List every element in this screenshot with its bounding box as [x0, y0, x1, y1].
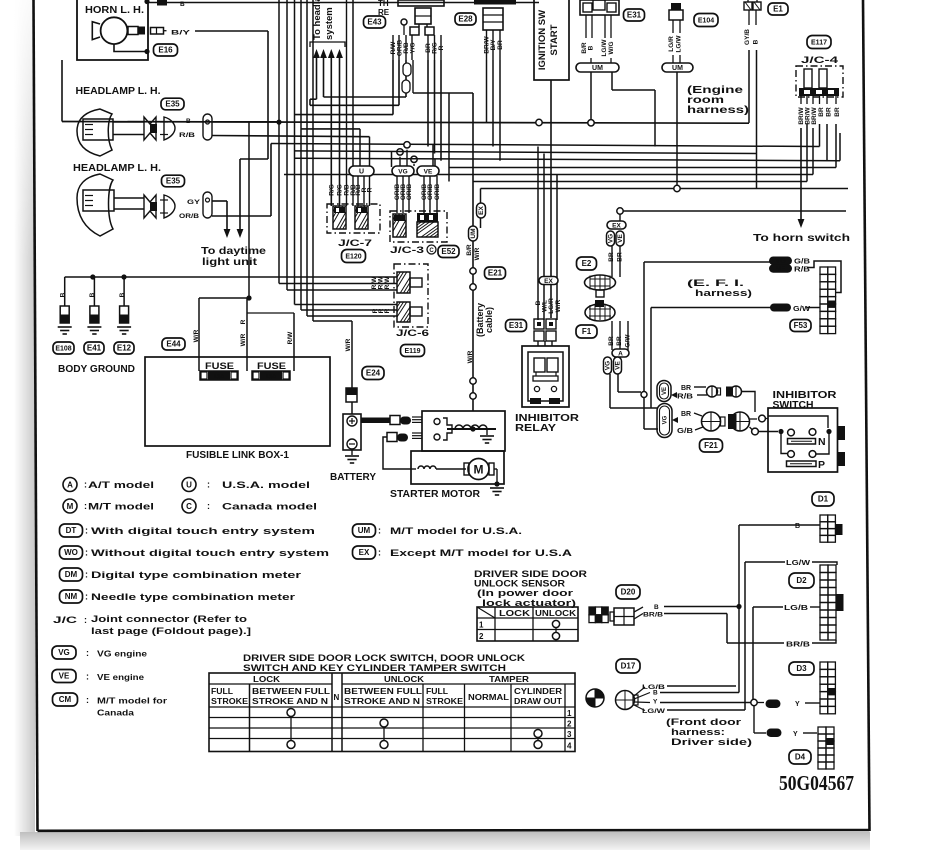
svg-text:A: A — [67, 480, 73, 489]
svg-text:P: P — [818, 459, 825, 471]
svg-text:M: M — [474, 463, 484, 477]
svg-text:W/G: W/G — [608, 42, 615, 55]
svg-text:VE: VE — [424, 168, 433, 175]
svg-text:N: N — [818, 436, 826, 448]
svg-text:B/Y: B/Y — [171, 30, 191, 37]
svg-text:BETWEEN FULL: BETWEEN FULL — [252, 687, 330, 696]
svg-text:VG engine: VG engine — [97, 649, 147, 659]
svg-text:U: U — [186, 480, 192, 489]
svg-text:HORN L. H.: HORN L. H. — [85, 5, 144, 16]
svg-text:B: B — [654, 604, 659, 611]
svg-text:OR/B: OR/B — [179, 213, 199, 220]
svg-text::: : — [85, 526, 88, 536]
svg-text:3: 3 — [567, 730, 572, 739]
svg-text:harness): harness) — [687, 105, 749, 116]
svg-text::: : — [85, 570, 88, 580]
svg-text:Joint connector (Refer to: Joint connector (Refer to — [91, 614, 247, 625]
svg-text::: : — [84, 501, 87, 511]
svg-text:M/T model for: M/T model for — [97, 696, 168, 706]
svg-text:BR/W: BR/W — [811, 106, 818, 124]
svg-text:R: R — [367, 187, 374, 192]
svg-text:LG/W: LG/W — [786, 560, 811, 567]
svg-text:15A: 15A — [265, 375, 277, 381]
svg-text:VG: VG — [663, 415, 669, 424]
svg-text:harness): harness) — [695, 288, 752, 299]
svg-text:DM: DM — [65, 570, 78, 579]
svg-text:2: 2 — [479, 632, 484, 641]
svg-text:GY: GY — [187, 199, 201, 206]
svg-text:WO: WO — [769, 731, 780, 737]
svg-text:A/T model: A/T model — [88, 480, 154, 491]
svg-text:START: START — [549, 24, 560, 55]
svg-text:B: B — [89, 292, 96, 297]
svg-text:FULL: FULL — [211, 687, 233, 696]
svg-text:VE: VE — [662, 387, 668, 395]
svg-text:E31: E31 — [627, 11, 642, 20]
svg-text:VE: VE — [617, 234, 624, 243]
svg-text:UM: UM — [672, 65, 683, 72]
svg-text:D20: D20 — [621, 588, 636, 597]
svg-text:W/R: W/R — [467, 350, 474, 363]
svg-text:E108: E108 — [55, 346, 71, 353]
svg-text:VG: VG — [775, 258, 786, 265]
svg-text:cable): cable) — [484, 307, 494, 333]
svg-text:M: M — [67, 502, 74, 511]
svg-text:GY/B: GY/B — [744, 29, 751, 45]
svg-text:BR: BR — [681, 411, 691, 418]
svg-text:system: system — [324, 7, 335, 40]
svg-text:UNLOCK: UNLOCK — [384, 674, 425, 684]
svg-text:Digital type combination meter: Digital type combination meter — [91, 570, 301, 581]
svg-text:STARTER MOTOR: STARTER MOTOR — [390, 489, 481, 500]
svg-text:VG: VG — [608, 234, 615, 243]
svg-text:E24: E24 — [366, 369, 381, 378]
svg-text:R/G: R/G — [337, 184, 344, 196]
svg-text:CM: CM — [775, 305, 786, 312]
svg-text:LG/B: LG/B — [784, 605, 808, 612]
svg-text:E28: E28 — [458, 15, 473, 24]
svg-text:G/B: G/B — [794, 259, 810, 266]
svg-text:U.S.A. model: U.S.A. model — [222, 480, 310, 491]
svg-text:RELAY: RELAY — [515, 423, 556, 434]
svg-text:F53: F53 — [794, 321, 808, 330]
svg-text:G/B: G/B — [677, 428, 693, 435]
svg-text:EX: EX — [478, 206, 485, 215]
svg-text:LG/R: LG/R — [668, 36, 675, 52]
svg-text::: : — [378, 526, 381, 536]
svg-text:E12: E12 — [117, 344, 132, 353]
svg-text:last page (Foldout page).]: last page (Foldout page).] — [91, 626, 251, 637]
svg-text:R/G: R/G — [329, 184, 336, 196]
svg-text:DT: DT — [769, 702, 777, 708]
svg-text:R: R — [438, 45, 445, 50]
svg-text:To horn switch: To horn switch — [753, 233, 850, 244]
svg-text::: : — [85, 548, 88, 558]
svg-text:U: U — [359, 168, 364, 175]
svg-text:N: N — [334, 693, 340, 702]
svg-text:E2: E2 — [582, 259, 592, 268]
svg-text:IGNITION SW: IGNITION SW — [537, 10, 548, 70]
svg-text:OR/B: OR/B — [406, 184, 413, 201]
svg-text:E41: E41 — [87, 344, 102, 353]
svg-text:B: B — [588, 45, 595, 50]
svg-text:With digital touch entry syste: With digital touch entry system — [91, 526, 315, 537]
svg-text:LOCK: LOCK — [499, 608, 531, 618]
svg-text:BR/B: BR/B — [643, 612, 663, 619]
svg-text:F1: F1 — [582, 327, 592, 336]
svg-text:J/C-7: J/C-7 — [338, 238, 372, 249]
svg-text:D3: D3 — [796, 664, 807, 673]
svg-text:VG: VG — [605, 361, 612, 370]
svg-text:TAMPER: TAMPER — [489, 674, 529, 684]
svg-text::: : — [207, 501, 210, 511]
svg-text:FULL: FULL — [426, 687, 448, 696]
svg-text:DRAW OUT: DRAW OUT — [514, 697, 562, 706]
svg-text:J/C-6: J/C-6 — [396, 328, 429, 339]
svg-text:E35: E35 — [165, 100, 180, 109]
svg-text:B: B — [59, 292, 66, 297]
svg-text:OR/B: OR/B — [427, 184, 434, 201]
svg-text:BR: BR — [826, 107, 833, 117]
svg-text:FUSIBLE LINK BOX-1: FUSIBLE LINK BOX-1 — [186, 449, 289, 461]
svg-text:WO: WO — [64, 548, 78, 557]
svg-text::: : — [378, 548, 381, 558]
svg-text:E104: E104 — [698, 18, 714, 25]
svg-text:NORMAL: NORMAL — [468, 693, 509, 702]
svg-text:Except M/T model for U.S.A: Except M/T model for U.S.A — [390, 548, 572, 559]
svg-text:VE: VE — [776, 266, 786, 273]
svg-text:VE engine: VE engine — [97, 672, 144, 682]
svg-text:BR: BR — [818, 107, 825, 117]
svg-text:B: B — [653, 690, 658, 697]
svg-text:M/T model for U.S.A.: M/T model for U.S.A. — [390, 526, 522, 537]
svg-text::: : — [85, 592, 88, 602]
svg-text:OR/B: OR/B — [434, 184, 441, 201]
svg-text:E119: E119 — [405, 348, 421, 355]
svg-text:4: 4 — [567, 742, 572, 751]
svg-text:Canada model: Canada model — [222, 502, 317, 513]
svg-text:CYLINDER: CYLINDER — [514, 687, 562, 696]
svg-text:R: R — [384, 308, 391, 313]
svg-text:LG/W: LG/W — [601, 39, 608, 57]
svg-text:SWITCH: SWITCH — [773, 400, 814, 411]
svg-text:BETWEEN FULL: BETWEEN FULL — [344, 687, 422, 696]
svg-text:VG: VG — [398, 168, 407, 175]
svg-text:NM: NM — [65, 592, 78, 601]
svg-text:R: R — [240, 319, 247, 324]
svg-text:W/R: W/R — [474, 247, 481, 260]
svg-text:R/B: R/B — [677, 394, 693, 401]
svg-text:2: 2 — [567, 720, 572, 729]
svg-text:LG/W: LG/W — [676, 35, 683, 53]
svg-text:UM: UM — [358, 526, 371, 535]
svg-text:EX: EX — [544, 278, 553, 285]
svg-text:E16: E16 — [158, 46, 173, 55]
svg-text:W/R: W/R — [240, 333, 247, 346]
svg-text:M/T model: M/T model — [88, 502, 154, 513]
svg-text:D2: D2 — [796, 576, 807, 585]
svg-text:E21: E21 — [488, 269, 503, 278]
svg-text:STROKE AND N: STROKE AND N — [344, 697, 420, 706]
svg-text:Y: Y — [795, 701, 800, 708]
svg-text:B: B — [119, 292, 126, 297]
svg-text:Without digital touch entry sy: Without digital touch entry system — [91, 548, 329, 559]
svg-text:DT: DT — [66, 526, 77, 535]
svg-text:50G04567: 50G04567 — [779, 771, 854, 795]
svg-text:E120: E120 — [345, 254, 361, 261]
svg-text:W/R: W/R — [555, 299, 562, 312]
svg-text:B/Y: B/Y — [490, 39, 497, 51]
svg-text:EX: EX — [359, 548, 370, 557]
svg-text:VE: VE — [615, 361, 622, 370]
svg-text:VE: VE — [59, 672, 70, 681]
svg-text:B: B — [795, 523, 800, 530]
svg-text:E44: E44 — [166, 340, 181, 349]
svg-text:D17: D17 — [621, 662, 636, 671]
svg-text::: : — [207, 480, 210, 490]
svg-text:R/W: R/W — [287, 331, 294, 345]
svg-text:LG/W: LG/W — [642, 708, 666, 715]
svg-text:B: B — [753, 39, 760, 44]
svg-text::: : — [86, 672, 89, 682]
svg-text:E31: E31 — [509, 321, 524, 330]
svg-text:UNLOCK: UNLOCK — [535, 608, 577, 618]
svg-text::: : — [84, 480, 87, 490]
svg-text:E43: E43 — [367, 18, 382, 27]
svg-text::: : — [86, 648, 89, 658]
svg-text:E117: E117 — [811, 40, 827, 47]
svg-text::: : — [84, 615, 87, 625]
svg-text:Y/G: Y/G — [410, 42, 417, 53]
svg-text:D1: D1 — [818, 495, 829, 504]
svg-text:J/C: J/C — [53, 615, 77, 626]
svg-text:15A: 15A — [213, 375, 225, 381]
svg-text:C: C — [186, 502, 192, 511]
svg-text:A: A — [618, 350, 623, 357]
svg-text:CM: CM — [59, 695, 72, 704]
svg-text:1: 1 — [567, 709, 572, 718]
svg-text:UM: UM — [470, 228, 477, 238]
svg-text:HEADLAMP L. H.: HEADLAMP L. H. — [76, 86, 161, 97]
svg-text:Needle type combination meter: Needle type combination meter — [91, 592, 295, 603]
svg-text:BR/B: BR/B — [786, 642, 810, 649]
svg-text:Canada: Canada — [97, 708, 134, 718]
svg-text:Driver side): Driver side) — [671, 737, 752, 748]
svg-text::: : — [86, 695, 89, 705]
svg-text:Y: Y — [793, 731, 798, 738]
svg-text:E52: E52 — [441, 247, 456, 256]
svg-text:R/W: R/W — [384, 276, 391, 290]
svg-text:STROKE AND N: STROKE AND N — [252, 697, 328, 706]
svg-text:W/R: W/R — [193, 329, 200, 342]
svg-text:J/C-4: J/C-4 — [801, 55, 839, 66]
svg-text:VG: VG — [58, 648, 70, 657]
svg-text:LG/R: LG/R — [548, 298, 555, 314]
svg-text:UM: UM — [592, 65, 603, 72]
svg-text:E1: E1 — [773, 5, 783, 14]
svg-text:BR: BR — [834, 107, 841, 117]
svg-text:D4: D4 — [795, 753, 806, 762]
svg-text:To daytime: To daytime — [201, 246, 267, 257]
svg-text:HEADLAMP L. H.: HEADLAMP L. H. — [73, 163, 161, 174]
svg-text:TH: TH — [378, 0, 389, 8]
svg-text:C: C — [429, 248, 434, 254]
svg-text:LOCK: LOCK — [253, 674, 281, 684]
svg-text:EX: EX — [612, 222, 621, 229]
svg-text:STROKE: STROKE — [211, 697, 249, 706]
svg-text:W/R: W/R — [345, 338, 352, 351]
svg-text:STROKE: STROKE — [426, 697, 464, 706]
svg-text:1: 1 — [479, 621, 484, 630]
svg-text:BR: BR — [497, 40, 504, 50]
svg-text:J/C-3: J/C-3 — [390, 245, 424, 256]
svg-text:BATTERY: BATTERY — [330, 472, 376, 483]
svg-text:E35: E35 — [166, 177, 181, 186]
svg-text:B/R: B/R — [466, 244, 473, 256]
svg-text:Y: Y — [653, 699, 658, 706]
svg-text:F21: F21 — [704, 441, 718, 450]
svg-text:BR: BR — [681, 385, 691, 392]
svg-text:R/B: R/B — [179, 132, 195, 139]
svg-text:BODY GROUND: BODY GROUND — [58, 364, 135, 375]
